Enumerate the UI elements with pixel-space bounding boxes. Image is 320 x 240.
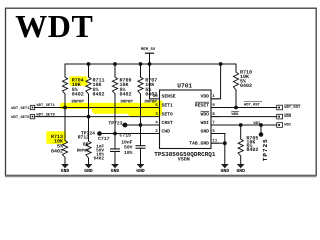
svg-text:0402: 0402	[246, 147, 258, 153]
svg-text:0402: 0402	[93, 156, 104, 161]
svg-text:10%: 10%	[124, 150, 133, 156]
svg-text:CWD: CWD	[162, 128, 171, 134]
svg-text:DNPOP: DNPOP	[145, 99, 158, 104]
svg-text:0402: 0402	[51, 149, 63, 155]
svg-text:TP723: TP723	[108, 120, 122, 126]
svg-text:WDT_RST: WDT_RST	[284, 105, 301, 110]
svg-text:MEM_5V: MEM_5V	[141, 47, 156, 52]
svg-text:GND: GND	[61, 168, 70, 174]
svg-text:WDI: WDI	[201, 120, 210, 126]
svg-text:WDO: WDO	[232, 112, 240, 117]
svg-text:WDT_SET0: WDT_SET0	[11, 115, 30, 120]
svg-text:GND: GND	[111, 168, 120, 174]
svg-text:GND: GND	[221, 168, 230, 174]
svg-text:VSON: VSON	[178, 156, 190, 162]
svg-text:TAB_GND: TAB_GND	[189, 140, 209, 146]
svg-text:GND: GND	[236, 168, 245, 174]
svg-text:0402: 0402	[93, 92, 105, 98]
svg-text:11: 11	[212, 139, 218, 144]
svg-text:CRST: CRST	[162, 120, 173, 126]
svg-text:RESET: RESET	[195, 102, 209, 108]
svg-text:SET0: SET0	[162, 111, 173, 117]
svg-text:DNPOP: DNPOP	[72, 99, 85, 104]
svg-text:0402: 0402	[120, 92, 132, 98]
svg-text:WDO: WDO	[284, 114, 292, 119]
svg-text:WDO: WDO	[201, 111, 210, 117]
svg-text:WDT_RST: WDT_RST	[244, 102, 261, 107]
svg-text:0R: 0R	[83, 142, 89, 148]
svg-text:WDT: WDT	[15, 8, 93, 44]
svg-text:0402: 0402	[240, 83, 252, 89]
svg-text:WDI: WDI	[254, 121, 261, 126]
svg-text:TP725: TP725	[262, 138, 269, 161]
svg-text:50V: 50V	[124, 145, 133, 151]
svg-text:GND: GND	[201, 128, 210, 134]
svg-text:WDT_SET0: WDT_SET0	[37, 112, 56, 117]
svg-text:SET1: SET1	[162, 102, 173, 108]
svg-text:WDT_SET1: WDT_SET1	[37, 103, 56, 108]
svg-text:R712: R712	[78, 135, 89, 141]
svg-text:U701: U701	[177, 82, 192, 89]
svg-text:GND: GND	[136, 168, 145, 174]
svg-text:0402: 0402	[145, 92, 157, 98]
svg-text:WDI: WDI	[284, 123, 291, 128]
svg-text:WDT_SET1: WDT_SET1	[11, 106, 30, 111]
svg-text:VDD: VDD	[201, 94, 210, 100]
svg-text:10nF: 10nF	[121, 139, 132, 145]
svg-text:DNPOP: DNPOP	[77, 149, 90, 154]
svg-text:0402: 0402	[72, 92, 84, 98]
svg-text:SENSE: SENSE	[162, 94, 176, 100]
svg-text:GND: GND	[84, 168, 93, 174]
svg-text:C717: C717	[98, 136, 110, 142]
svg-text:DNPOP: DNPOP	[121, 99, 134, 104]
svg-text:C715: C715	[119, 133, 131, 139]
